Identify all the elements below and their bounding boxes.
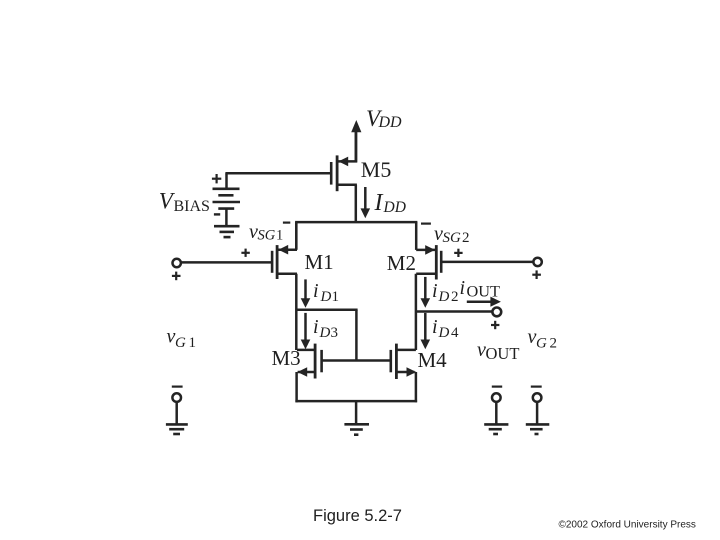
svg-text:D: D	[438, 325, 450, 341]
svg-text:i: i	[313, 280, 319, 302]
svg-text:SG: SG	[258, 228, 276, 244]
svg-text:DD: DD	[383, 199, 406, 216]
wire left input to M1 gate	[181, 261, 271, 264]
output terminal circle	[492, 308, 501, 317]
minus sign right of rail	[421, 223, 431, 225]
wire diode connection horizontal	[296, 309, 357, 312]
battery plus sign	[212, 174, 221, 183]
label VBIAS	[159, 188, 210, 215]
ground terminal right B: circle	[533, 393, 542, 402]
svg-text:i: i	[313, 316, 319, 338]
ground terminal right A: bars	[484, 424, 508, 434]
wire M3 gate to M4 gate	[322, 359, 391, 362]
current arrow iD4	[421, 313, 431, 349]
minus sign left of rail	[283, 222, 290, 224]
plus above right gate wire	[454, 249, 462, 257]
transistor M3 (NMOS, facing left)	[297, 344, 322, 379]
svg-text:1: 1	[189, 335, 197, 351]
svg-text:OUT: OUT	[467, 281, 501, 300]
label iD2	[432, 280, 459, 305]
svg-text:M2: M2	[387, 251, 416, 275]
label vG2	[528, 326, 558, 351]
common source top rail	[295, 222, 417, 250]
current arrow IDD	[361, 187, 371, 218]
wire output node to output terminal	[416, 310, 492, 313]
label iD1	[313, 280, 339, 305]
node VDD supply arrow	[351, 120, 361, 163]
svg-text:4: 4	[451, 325, 459, 341]
transistor M2 (PMOS)	[416, 245, 441, 279]
ground terminal left: circle	[172, 393, 181, 402]
ground terminal right B: minus	[531, 386, 542, 388]
ground center	[344, 424, 369, 434]
plus below right terminal	[532, 270, 541, 279]
svg-text:D: D	[320, 289, 332, 305]
svg-text:i: i	[432, 316, 438, 338]
current arrow iD3	[301, 313, 311, 349]
wire M2 drain down to M4 drain	[415, 274, 418, 350]
label vSG1	[249, 221, 283, 244]
ground terminal right B: stem	[536, 402, 539, 424]
svg-text:©2002 Oxford University Press: ©2002 Oxford University Press	[559, 519, 696, 530]
svg-text:D: D	[438, 289, 450, 305]
input terminal left	[173, 259, 181, 267]
label vG1	[167, 326, 197, 351]
plus below left terminal	[172, 272, 181, 281]
svg-text:2: 2	[462, 230, 470, 246]
label VDD	[366, 106, 402, 131]
svg-text:M5: M5	[361, 157, 392, 182]
wire M3 source down	[295, 372, 298, 402]
svg-text:2: 2	[550, 335, 558, 351]
label iOUT	[460, 277, 501, 300]
plus above left gate wire	[241, 249, 249, 257]
input terminal right	[533, 258, 541, 266]
svg-text:i: i	[432, 280, 438, 302]
wire M5 gate to VBIAS	[225, 172, 331, 175]
wire M1 drain down to M3 drain	[295, 274, 298, 350]
transistor M1 (PMOS)	[272, 222, 297, 279]
svg-text:M1: M1	[305, 250, 334, 274]
transistor M5 (PMOS)	[331, 131, 357, 223]
svg-text:G: G	[175, 335, 186, 351]
svg-text:M3: M3	[272, 346, 301, 370]
ground center stem	[355, 401, 358, 424]
svg-text:BIAS: BIAS	[174, 198, 210, 215]
svg-text:1: 1	[276, 228, 283, 244]
ground terminal right B: bars	[526, 424, 550, 434]
plus below output terminal	[491, 321, 499, 329]
ground of VBIAS	[214, 226, 240, 237]
bottom rail	[295, 400, 417, 403]
label iD4	[432, 316, 459, 341]
svg-text:2: 2	[451, 289, 459, 305]
svg-text:3: 3	[331, 325, 339, 341]
svg-text:i: i	[460, 277, 466, 299]
svg-text:D: D	[319, 325, 331, 341]
current arrow iD2	[421, 277, 431, 308]
ground terminal right A: circle	[492, 393, 501, 402]
svg-text:G: G	[536, 335, 547, 351]
ground terminal left: stem	[175, 402, 178, 424]
wire diode connection vertical	[355, 310, 358, 361]
current arrow iOUT	[467, 297, 501, 307]
label IDD	[374, 190, 406, 216]
wire M2 gate to right terminal	[441, 261, 533, 264]
current arrow iD1	[301, 279, 311, 307]
svg-text:OUT: OUT	[486, 344, 520, 363]
svg-text:1: 1	[332, 289, 340, 305]
battery minus sign	[214, 213, 220, 215]
battery VBIAS	[213, 173, 241, 226]
svg-text:M4: M4	[418, 348, 448, 372]
ground terminal left: minus	[172, 386, 183, 388]
ground terminal left: bars	[166, 424, 188, 434]
ground terminal right A: minus	[492, 386, 502, 388]
svg-text:SG: SG	[443, 230, 462, 246]
svg-text:I: I	[374, 190, 384, 216]
transistor M4 (NMOS, facing right)	[391, 344, 417, 379]
label iD3	[313, 316, 338, 341]
svg-text:DD: DD	[378, 114, 403, 131]
ground terminal right A: stem	[495, 402, 498, 424]
label vSG2	[434, 223, 470, 246]
svg-text:Figure 5.2-7: Figure 5.2-7	[313, 507, 402, 525]
label vOUT	[477, 339, 519, 363]
wire M4 source down	[415, 372, 418, 402]
